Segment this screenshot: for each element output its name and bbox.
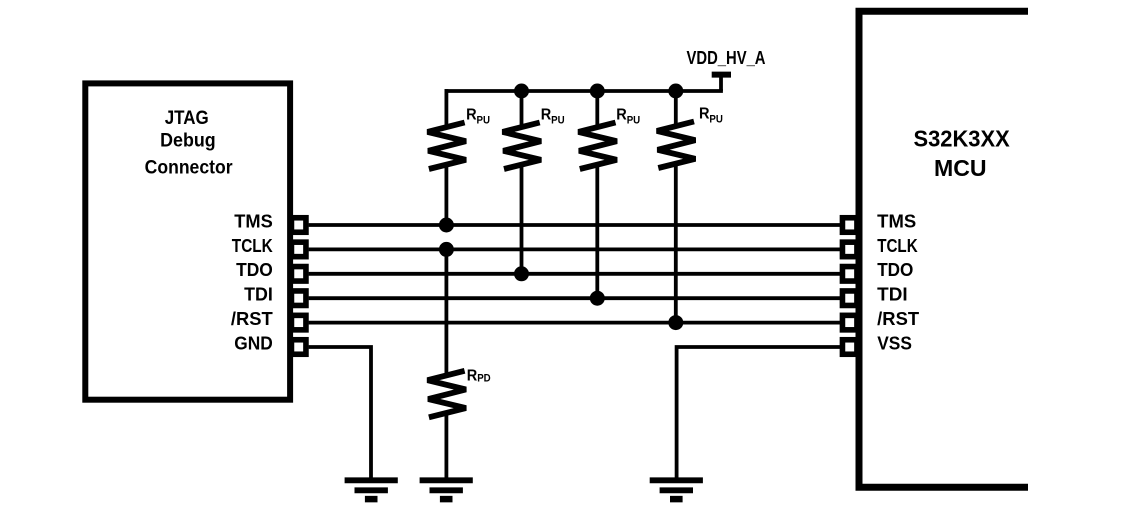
svg-text:R: R <box>699 106 710 123</box>
svg-text:TMS: TMS <box>877 211 916 231</box>
wire GND: connector to ground <box>309 347 371 479</box>
junction: /RST/R_PU4 <box>668 315 683 330</box>
wire: VDD rail to resistor R_PU1 <box>444 89 448 126</box>
svg-text:TDI: TDI <box>244 285 273 305</box>
svg-text:R: R <box>466 107 477 124</box>
resistor R_PU2 (pull-up) <box>503 123 541 170</box>
resistor R_PD (TCLK pull-down) <box>428 371 466 418</box>
wire VDD_HV_A rail <box>445 89 723 93</box>
svg-text:PU: PU <box>551 114 565 126</box>
svg-text:PU: PU <box>627 114 641 126</box>
MCU pin square TDI <box>842 291 857 306</box>
svg-text:MCU: MCU <box>934 155 987 181</box>
wire TDI: connector to MCU <box>309 296 840 300</box>
wire VSS: MCU to ground <box>677 347 840 479</box>
junction: VDD rail / R_PU2 <box>514 84 529 99</box>
svg-text:GND: GND <box>234 333 273 353</box>
JTAG debug connector box J1 <box>85 83 290 399</box>
junction: VDD rail / R_PU3 <box>590 84 605 99</box>
resistor R_PU3 (pull-up) <box>578 123 616 170</box>
connector pin square GND <box>291 340 306 355</box>
svg-text:R: R <box>616 107 627 124</box>
svg-text:TCLK: TCLK <box>877 236 918 256</box>
wire: resistor R_PU1 to signal <box>444 166 448 226</box>
connector pin square TDO <box>291 267 306 282</box>
junction: VDD rail / R_PU4 <box>668 84 683 99</box>
wire: VDD rail to resistor R_PU3 <box>595 89 599 126</box>
wire TCLK: connector to MCU <box>309 247 840 251</box>
connector pin square TDI <box>291 291 306 306</box>
junction: TDI/R_PU3 <box>590 291 605 306</box>
MCU pin square TCLK <box>842 242 857 257</box>
connector pin square TMS <box>291 218 306 233</box>
S32K3XX MCU title <box>914 125 1011 181</box>
svg-text:JTAG: JTAG <box>165 108 209 129</box>
wire TMS: connector to MCU <box>309 223 840 227</box>
wire: resistor R_PD to ground <box>444 414 448 480</box>
MCU pin square TMS <box>842 218 857 233</box>
svg-text:PD: PD <box>477 372 491 384</box>
wire: resistor R_PU2 to signal <box>520 166 524 274</box>
svg-text:TDO: TDO <box>236 260 273 280</box>
svg-text:/RST: /RST <box>231 309 273 329</box>
wire TDO: connector to MCU <box>309 272 840 276</box>
svg-text:TDO: TDO <box>877 260 913 280</box>
resistor R_PU4 (pull-up) <box>657 122 695 169</box>
svg-text:S32K3XX: S32K3XX <box>914 125 1011 151</box>
MCU pin square /RST <box>842 315 857 330</box>
svg-text:R: R <box>541 107 552 124</box>
svg-text:VDD_HV_A: VDD_HV_A <box>687 48 766 68</box>
svg-text:Connector: Connector <box>145 157 233 178</box>
ground symbol (R_PD) <box>420 480 473 499</box>
connector pin square /RST <box>291 315 306 330</box>
wire: resistor R_PU4 to signal <box>674 165 678 323</box>
junction: TMS/R_PU1 <box>439 218 454 233</box>
wire /RST: connector to MCU <box>309 321 840 325</box>
svg-text:PU: PU <box>477 114 491 126</box>
connector pin square TCLK <box>291 242 306 257</box>
MCU pin square VSS <box>842 340 857 355</box>
svg-text:Debug: Debug <box>160 130 216 151</box>
JTAG debug connector title <box>145 108 233 178</box>
svg-text:/RST: /RST <box>877 309 919 329</box>
svg-text:TMS: TMS <box>234 211 273 231</box>
junction: TDO/R_PU2 <box>514 266 529 281</box>
wire: TCLK to resistor R_PD <box>444 249 448 375</box>
junction: TCLK/R_PD <box>439 242 454 257</box>
svg-text:PU: PU <box>709 113 723 125</box>
ground symbol (MCU VSS) <box>650 480 703 499</box>
svg-text:VSS: VSS <box>877 333 912 353</box>
MCU pin square TDO <box>842 267 857 282</box>
svg-text:TCLK: TCLK <box>232 236 273 256</box>
VDD_HV_A power symbol <box>712 75 731 91</box>
wire: VDD rail to resistor R_PU2 <box>520 89 524 126</box>
resistor R_PU1 (pull-up) <box>428 123 466 170</box>
wire: resistor R_PU3 to signal <box>595 166 599 299</box>
svg-text:R: R <box>467 367 478 384</box>
wire: VDD rail to resistor R_PU4 <box>674 89 678 125</box>
svg-text:TDI: TDI <box>877 285 907 305</box>
S32K3XX MCU box U1 (open on right side) <box>859 11 1028 487</box>
ground symbol (connector GND) <box>345 480 398 499</box>
